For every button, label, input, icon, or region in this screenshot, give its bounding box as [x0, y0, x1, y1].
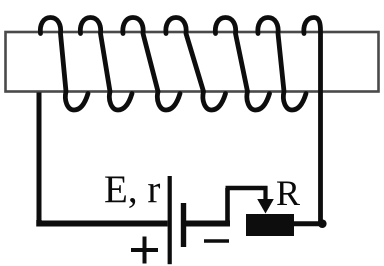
battery cell short plate (-) — [181, 203, 186, 247]
wire from battery to riser — [185, 221, 230, 227]
wire left vertical lower part joins corner — [36, 220, 42, 227]
junction — [318, 219, 327, 228]
coil turn 6 — [258, 18, 306, 111]
coil turn 3 — [123, 18, 180, 111]
coil turn 7 and right lead down — [304, 18, 321, 224]
label R — [276, 172, 300, 214]
plus sign — [131, 237, 158, 264]
rheostat body R — [246, 214, 294, 236]
top wire to wiper — [226, 186, 268, 191]
coil turn 4 — [166, 18, 226, 111]
rheostat wiper arrow — [263, 186, 267, 201]
coil turn 1 — [40, 18, 88, 111]
coil turn 5 — [215, 18, 269, 111]
label E, r — [104, 167, 160, 212]
battery cell E,r : long plate (+) — [168, 176, 172, 264]
coil L1 winding: hidden entry wire behind core — [37, 93, 42, 227]
wire from rheostat to right vertical — [294, 221, 321, 226]
coil turn 2 — [80, 18, 132, 111]
core bar (solenoid form rectangle) — [6, 32, 379, 92]
minus sign — [204, 239, 229, 243]
bottom wire left segment — [37, 221, 168, 227]
riser wire up — [225, 188, 230, 226]
